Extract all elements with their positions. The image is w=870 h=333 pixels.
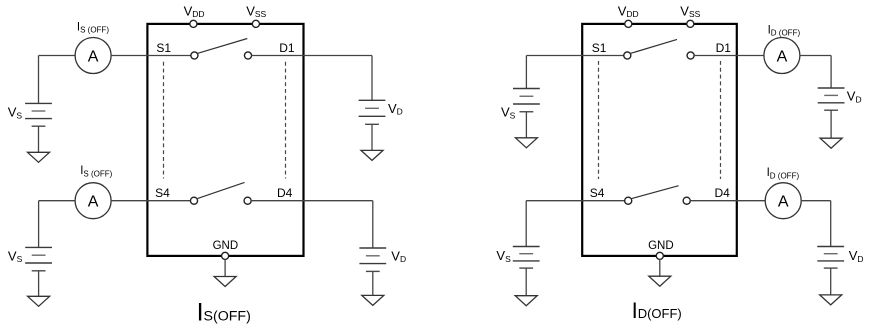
svg-text:VSS: VSS: [246, 3, 266, 19]
svg-text:VDD: VDD: [184, 3, 205, 19]
svg-text:A: A: [778, 194, 789, 211]
ground under U2: [649, 276, 671, 286]
wire down to VD2: [372, 201, 374, 248]
svg-text:S1: S1: [592, 41, 607, 55]
svg-text:A: A: [777, 48, 788, 65]
battery VD1: [359, 100, 386, 124]
ammeter A3: [764, 38, 800, 74]
wire VS1 to ground: [38, 126, 40, 152]
switch SW8 pole: [625, 197, 632, 204]
svg-text:IS (OFF): IS (OFF): [80, 165, 112, 178]
wire S4 internal: [147, 200, 190, 202]
ammeter A2: [75, 183, 111, 219]
svg-text:ID (OFF): ID (OFF): [768, 24, 801, 37]
svg-text:IS (OFF): IS (OFF): [77, 22, 109, 35]
pin VDD U1: [190, 20, 197, 27]
wire ammeter A2 to U1 S4: [111, 200, 147, 202]
switch IC U2 (right circuit): [582, 24, 737, 256]
svg-text:VSS: VSS: [680, 3, 700, 19]
svg-text:A: A: [88, 48, 99, 65]
svg-text:ID (OFF): ID (OFF): [767, 167, 800, 180]
ground under VS1: [28, 152, 50, 162]
wire VS4 to U2 S4: [526, 200, 582, 202]
svg-text:A: A: [88, 194, 99, 211]
ground under VD4: [820, 295, 842, 305]
wire VS3 to ground: [525, 112, 527, 138]
svg-text:VDD: VDD: [618, 3, 639, 19]
pin VSS U2: [687, 20, 694, 27]
pin GND U2: [656, 252, 663, 259]
wire VD1 to ground: [371, 124, 373, 150]
wire D1 internal: [251, 55, 303, 57]
svg-text:GND: GND: [648, 240, 674, 252]
wire down to VD1: [371, 56, 373, 101]
switch SW4 pole: [190, 197, 197, 204]
battery VS1: [25, 103, 52, 126]
svg-text:GND: GND: [213, 240, 239, 252]
wire VS2 to ammeter A2: [39, 200, 76, 202]
pin VDD U2: [625, 20, 632, 27]
wire S1 internal: [147, 55, 191, 57]
svg-text:VD: VD: [849, 248, 864, 264]
battery VD4: [817, 247, 844, 269]
wire D4 internal U2: [690, 200, 737, 202]
wire ammeter A3 to VD3: [800, 55, 831, 57]
ground under VS3: [515, 138, 537, 148]
svg-text:VD: VD: [388, 101, 403, 117]
ammeter A1: [75, 38, 111, 74]
switch SW5 arm: [630, 39, 677, 53]
switch IC U1 (left circuit): [147, 24, 303, 256]
switch SW4 throw: [244, 197, 251, 204]
switch SW5 pole: [624, 52, 631, 59]
ground under VD2: [362, 295, 384, 305]
svg-text:D1: D1: [716, 41, 732, 55]
ground under VS2: [28, 296, 50, 306]
svg-text:D4: D4: [277, 186, 293, 200]
battery VD3: [818, 88, 845, 110]
switch SW1 throw: [244, 52, 251, 59]
wire down to VS3: [525, 56, 527, 89]
wire GND U2 down: [659, 259, 661, 276]
wire VD4 to ground: [830, 268, 832, 295]
wire down to VS2: [38, 201, 40, 248]
wire S1 internal U2: [582, 55, 624, 57]
dashed continuation left U1: [163, 62, 165, 179]
switch SW1 arm: [197, 39, 247, 54]
svg-text:D4: D4: [715, 186, 731, 200]
svg-text:S4: S4: [590, 186, 605, 200]
svg-text:S1: S1: [156, 41, 171, 55]
wire VD2 to ground: [372, 271, 374, 295]
wire D1 to VD corner: [304, 55, 373, 57]
wire U2 D1 to ammeter A3: [737, 55, 764, 57]
svg-text:VS: VS: [8, 248, 23, 264]
wire GND U1 down: [224, 259, 226, 276]
wire U2 D4 to ammeter A4: [737, 200, 766, 202]
wire down to VD3: [830, 56, 832, 89]
switch SW8 throw: [683, 197, 690, 204]
wire down to VD4: [830, 201, 832, 247]
pin GND U1: [222, 252, 229, 259]
svg-text:ID(OFF): ID(OFF): [632, 298, 682, 323]
switch SW4 arm: [197, 182, 245, 198]
wire VS3 to U2 S1: [526, 55, 582, 57]
wire VS4 to ground: [525, 268, 527, 296]
wire VS2 to ground: [38, 271, 40, 297]
svg-text:D1: D1: [279, 41, 295, 55]
svg-text:VS: VS: [496, 248, 511, 264]
ammeter A4: [765, 183, 801, 219]
ground under VS4: [515, 296, 537, 306]
svg-text:VD: VD: [391, 248, 406, 264]
wire VS1 to ammeter A1: [39, 55, 76, 57]
svg-text:IS(OFF): IS(OFF): [197, 298, 251, 326]
battery VS2: [25, 247, 52, 270]
wire down to VS1: [38, 56, 40, 104]
switch SW5 throw: [687, 52, 694, 59]
battery VS3: [513, 89, 540, 112]
wire D4 to VD corner: [304, 200, 373, 202]
dashed continuation right U1: [285, 62, 287, 179]
wire D4 internal: [251, 200, 304, 202]
svg-text:VS: VS: [8, 105, 23, 121]
switch SW8 arm: [631, 186, 679, 199]
svg-text:VD: VD: [847, 89, 862, 105]
svg-text:VS: VS: [501, 105, 516, 121]
svg-text:S4: S4: [155, 186, 170, 200]
ground under VD1: [361, 150, 383, 160]
switch SW1 pole: [191, 52, 198, 59]
wire ammeter A1 to U1 S1: [111, 55, 147, 57]
dashed continuation right U2: [720, 61, 722, 179]
ground under U1: [214, 277, 236, 287]
wire D1 internal U2: [694, 55, 737, 57]
battery VS4: [513, 247, 540, 269]
ground under VD3: [820, 138, 842, 148]
dashed continuation left U2: [598, 61, 600, 179]
wire ammeter A4 to VD4: [801, 200, 831, 202]
wire VD3 to ground: [830, 110, 832, 138]
wire down to VS4: [525, 201, 527, 247]
wire S4 internal U2: [582, 200, 625, 202]
pin VSS U1: [252, 20, 259, 27]
battery VD2: [359, 248, 386, 271]
